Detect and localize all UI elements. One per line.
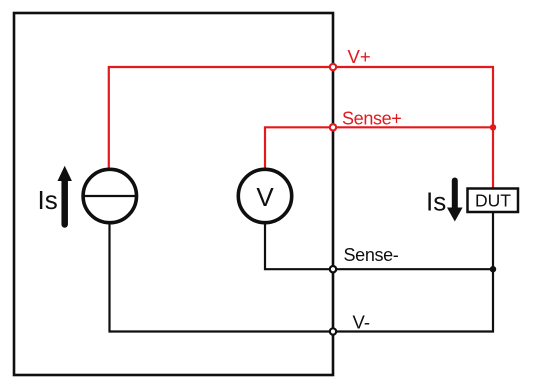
svg-text:V+: V+ bbox=[348, 46, 371, 67]
terminal node V+ bbox=[330, 64, 336, 70]
junction dot Sense+/V+ (red) bbox=[490, 124, 496, 130]
junction dot Sense-/V- (black) bbox=[490, 266, 496, 272]
wire V+ (red): current source top, up, right along V+ rail, down to DUT bbox=[109, 67, 493, 191]
voltmeter V bbox=[238, 169, 291, 222]
current direction arrow (up) bbox=[58, 166, 72, 225]
wire V- outside (black): terminal to DUT bottom bbox=[333, 210, 493, 332]
current source Is symbol bbox=[83, 169, 136, 222]
svg-text:V-: V- bbox=[353, 312, 370, 333]
wire V- inside (black): current source bottom, down, right to V- terminal bbox=[110, 220, 334, 332]
terminal node Sense+ bbox=[330, 124, 336, 130]
instrument enclosure box bbox=[14, 13, 333, 375]
current direction arrow (down) bbox=[447, 181, 463, 222]
svg-text:Sense+: Sense+ bbox=[342, 109, 401, 129]
DUT box bbox=[468, 189, 519, 213]
svg-text:Sense-: Sense- bbox=[344, 245, 399, 265]
terminal node V- bbox=[330, 328, 336, 334]
svg-text:Is: Is bbox=[38, 185, 58, 215]
terminal node Sense- bbox=[330, 266, 336, 272]
wire Sense- (black): voltmeter bottom, down, right to junction bbox=[265, 220, 493, 269]
wire Sense+ (red): voltmeter top, up, right to junction bbox=[265, 127, 493, 172]
svg-text:V: V bbox=[256, 182, 274, 212]
svg-text:DUT: DUT bbox=[475, 191, 511, 211]
svg-text:Is: Is bbox=[426, 187, 446, 217]
